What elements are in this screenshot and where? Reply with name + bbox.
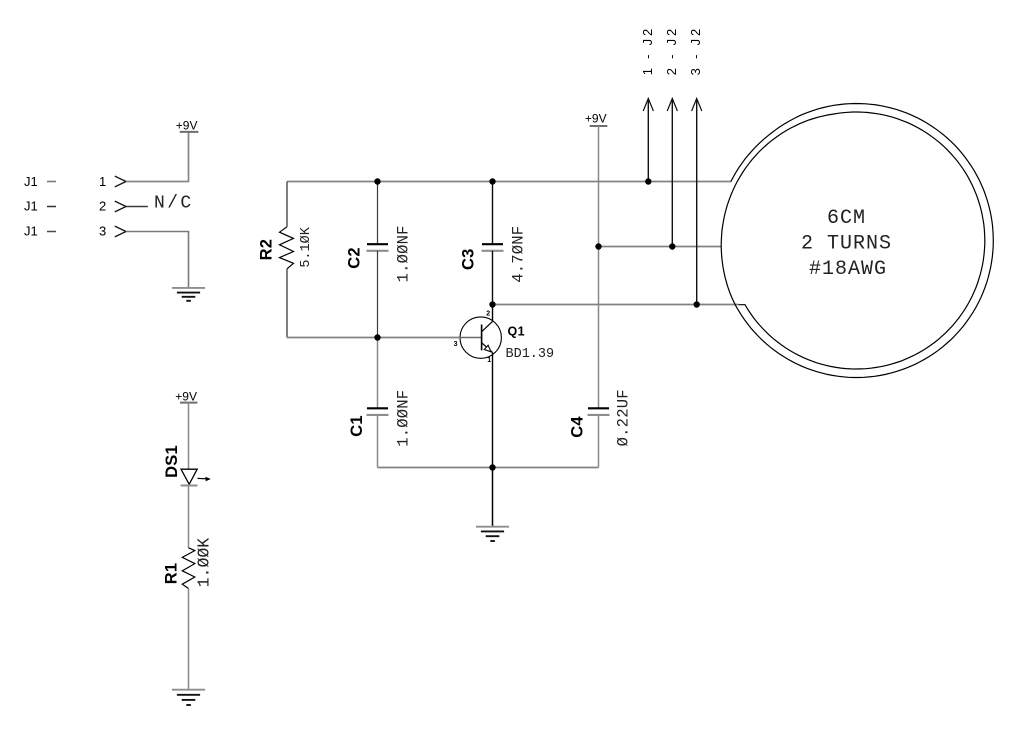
svg-text:C2: C2 (346, 247, 364, 269)
svg-text:2 TURNS: 2 TURNS (801, 233, 892, 256)
inductor coil L (2-turn spiral) (721, 104, 993, 378)
svg-text:+9V: +9V (176, 118, 198, 132)
wire 3 collector to coil (493, 304, 739, 306)
svg-text:1: 1 (487, 357, 491, 364)
svg-text:R2: R2 (258, 239, 276, 261)
resistor R1 (163, 538, 214, 589)
power +9V (J1) (176, 118, 199, 132)
J2 arrow 3 (688, 26, 703, 305)
svg-text:1.ØØK: 1.ØØK (195, 538, 214, 588)
wire ground stem (492, 468, 494, 527)
svg-text:3: 3 (454, 341, 458, 348)
svg-text:Q1: Q1 (508, 324, 525, 338)
svg-text:J1: J1 (24, 199, 38, 214)
ground (J1) (172, 288, 205, 301)
svg-text:1.ØØNF: 1.ØØNF (395, 225, 413, 282)
wire +9V to DS1 (188, 403, 190, 470)
capacitor C3 (459, 182, 527, 305)
capacitor C4 (569, 389, 633, 467)
svg-text:J1: J1 (24, 174, 38, 189)
transistor Q1 (454, 305, 555, 468)
svg-text:C4: C4 (569, 416, 587, 438)
svg-text:1: 1 (99, 174, 106, 189)
svg-text:C1: C1 (348, 415, 366, 437)
junction dots (374, 178, 700, 470)
power +9V (main) (585, 111, 608, 126)
svg-text:2: 2 (99, 199, 106, 214)
J2 arrow 2 (664, 26, 679, 247)
svg-text:+9V: +9V (585, 111, 607, 125)
svg-text:5.1ØK: 5.1ØK (299, 226, 314, 267)
ground (main) (476, 527, 509, 541)
svg-text:2: 2 (486, 310, 490, 317)
svg-text:J1: J1 (24, 224, 38, 239)
svg-text:1.ØØNF: 1.ØØNF (395, 390, 413, 447)
LED DS1 (163, 445, 211, 485)
capacitor C1 (348, 338, 413, 468)
J2 arrow 1 (640, 26, 655, 182)
wire +9V stem down to C4 (598, 126, 600, 408)
svg-text:R1: R1 (163, 563, 181, 585)
capacitor C2 (346, 182, 413, 338)
wire base net (287, 337, 460, 339)
wire R1 to ground (188, 589, 190, 690)
svg-text:3: 3 (99, 224, 106, 239)
svg-text:3 - J2: 3 - J2 (688, 26, 703, 75)
wire J1 pin2 stub (126, 206, 148, 208)
wire 2 center tap (599, 246, 722, 248)
resistor R2 (258, 182, 315, 338)
svg-text:C3: C3 (459, 248, 477, 270)
wire DS1 to R1 (188, 486, 190, 548)
wire J1 pin1 to +9V (126, 132, 189, 182)
svg-text:DS1: DS1 (163, 445, 181, 478)
ground (DS1 branch) (172, 690, 205, 705)
svg-text:Ø.22UF: Ø.22UF (615, 389, 633, 446)
svg-text:2 - J2: 2 - J2 (664, 26, 679, 75)
power +9V (DS1 branch) (175, 390, 197, 404)
connector J1 row labels (24, 174, 56, 239)
svg-text:N/C: N/C (154, 194, 194, 214)
wire top rail to coil (287, 181, 731, 183)
J1 pin 1 chevron (115, 176, 126, 187)
J1 pin 2 chevron (115, 201, 126, 212)
wire J1 pin3 to ground (126, 232, 189, 288)
svg-text:BD1.39: BD1.39 (506, 347, 555, 362)
wire bottom emitter net (378, 467, 599, 469)
J1 pin 3 chevron (115, 226, 126, 237)
svg-text:#18AWG: #18AWG (809, 258, 887, 281)
svg-text:1 - J2: 1 - J2 (640, 26, 655, 75)
svg-text:6CM: 6CM (827, 207, 866, 230)
svg-text:4.7ØNF: 4.7ØNF (510, 226, 528, 283)
